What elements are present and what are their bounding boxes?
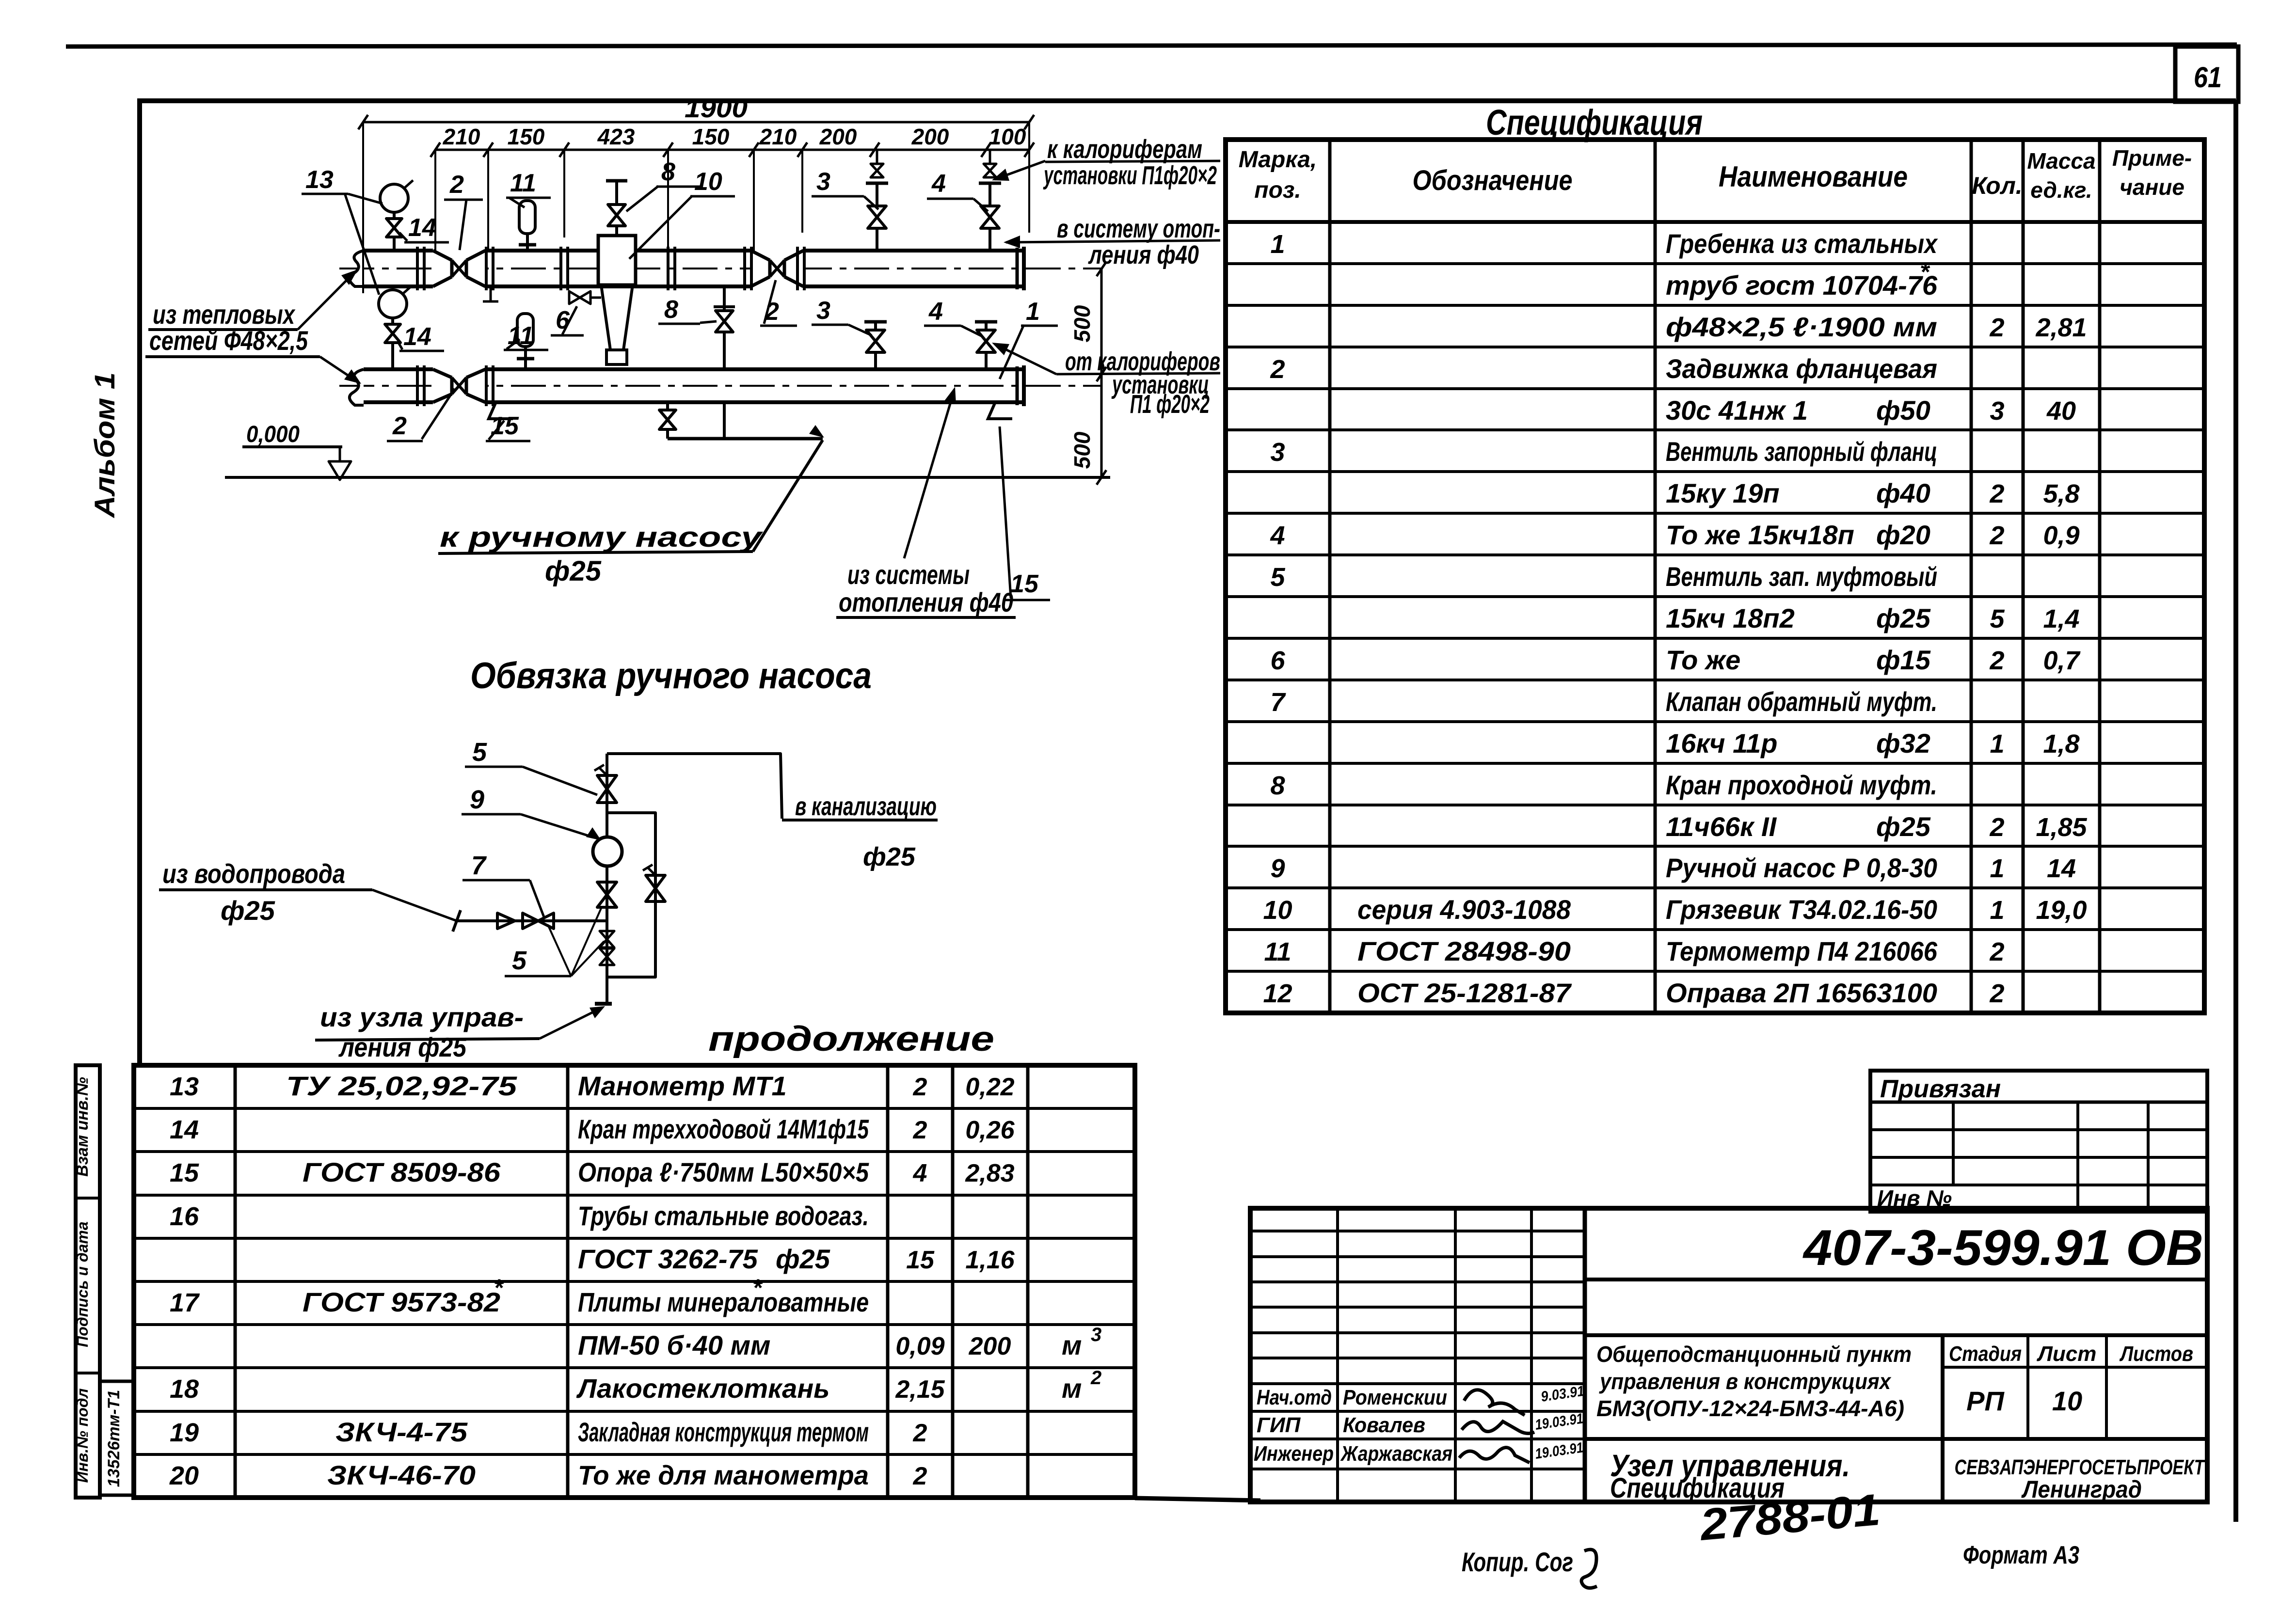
svg-text:15: 15 bbox=[1010, 570, 1039, 598]
svg-text:4: 4 bbox=[913, 1159, 927, 1187]
svg-text:к калориферам: к калориферам bbox=[1047, 135, 1202, 164]
svg-text:Гребенка из стальных: Гребенка из стальных bbox=[1666, 228, 1938, 259]
pump top line to sewer bbox=[607, 754, 782, 819]
svg-text:0,22: 0,22 bbox=[965, 1073, 1014, 1101]
thermometer 11 upper bbox=[519, 201, 535, 234]
dirt trap drain valve item 6 bbox=[569, 291, 580, 304]
svg-text:Подпись и дата: Подпись и дата bbox=[74, 1221, 91, 1347]
svg-text:40: 40 bbox=[2046, 396, 2076, 426]
dimension line segments bbox=[435, 149, 1029, 151]
svg-text:2,83: 2,83 bbox=[965, 1159, 1014, 1187]
svg-text:500: 500 bbox=[1069, 431, 1095, 469]
svg-text:5: 5 bbox=[512, 946, 527, 975]
right dimension 500 500 bbox=[1100, 269, 1103, 477]
svg-text:ЗКЧ-4-75: ЗКЧ-4-75 bbox=[335, 1417, 468, 1447]
continuation table grid bbox=[134, 1065, 1135, 1498]
stadia columns bbox=[1941, 1335, 1945, 1502]
svg-text:Закладная конструкция термом: Закладная конструкция термом bbox=[578, 1417, 869, 1447]
svg-text:2: 2 bbox=[1989, 979, 2004, 1008]
svg-text:10: 10 bbox=[2052, 1386, 2082, 1416]
drain valve under lower pipe bbox=[666, 402, 669, 410]
svg-text:200: 200 bbox=[819, 124, 857, 149]
svg-text:15: 15 bbox=[491, 412, 519, 440]
svg-text:БМЗ(ОПУ-12×24-БМЗ-44-А6): БМЗ(ОПУ-12×24-БМЗ-44-А6) bbox=[1596, 1396, 1904, 1421]
svg-text:поз.: поз. bbox=[1254, 177, 1301, 203]
svg-text:*: * bbox=[752, 1274, 763, 1301]
svg-text:5: 5 bbox=[1990, 604, 2005, 633]
svg-text:ГОСТ 28498-90: ГОСТ 28498-90 bbox=[1357, 936, 1571, 966]
svg-text:отопления ф40: отопления ф40 bbox=[839, 587, 1013, 617]
svg-text:500: 500 bbox=[1069, 305, 1095, 342]
svg-text:ф25: ф25 bbox=[221, 895, 275, 926]
svg-text:То же 15кч18п: То же 15кч18п bbox=[1666, 520, 1854, 550]
svg-text:труб гост 10704-76: труб гост 10704-76 bbox=[1666, 270, 1938, 300]
svg-text:ф40: ф40 bbox=[1876, 478, 1930, 508]
svg-text:0,9: 0,9 bbox=[2043, 521, 2079, 550]
svg-text:ОСТ 25-1281-87: ОСТ 25-1281-87 bbox=[1357, 978, 1572, 1008]
svg-text:2: 2 bbox=[913, 1419, 927, 1447]
svg-text:15кч 18п2: 15кч 18п2 bbox=[1666, 603, 1795, 633]
frame bottom segment bbox=[1135, 1498, 1260, 1500]
svg-text:Привязан: Привязан bbox=[1880, 1075, 2001, 1103]
svg-text:10: 10 bbox=[1263, 896, 1292, 925]
svg-text:1,85: 1,85 bbox=[2036, 813, 2087, 842]
svg-text:16кч 11р: 16кч 11р bbox=[1666, 728, 1777, 758]
svg-text:2: 2 bbox=[913, 1073, 927, 1101]
svg-text:7: 7 bbox=[1270, 688, 1286, 717]
svg-text:210: 210 bbox=[759, 124, 797, 149]
svg-text:11ч66к II: 11ч66к II bbox=[1666, 811, 1777, 842]
svg-text:0,26: 0,26 bbox=[965, 1116, 1015, 1144]
pipe right end caps bbox=[1016, 248, 1019, 289]
svg-text:2: 2 bbox=[1989, 646, 2004, 675]
riser valve 3 lower bbox=[874, 352, 877, 369]
svg-text:Лист: Лист bbox=[2037, 1342, 2097, 1366]
svg-text:Роменскии: Роменскии bbox=[1343, 1386, 1447, 1409]
title block right horizontals bbox=[1585, 1278, 2207, 1281]
svg-text:ления ф40: ления ф40 bbox=[1088, 240, 1199, 269]
svg-text:ГОСТ 3262-75: ГОСТ 3262-75 bbox=[578, 1244, 758, 1274]
svg-text:м: м bbox=[1062, 1373, 1082, 1404]
title block left grid rows bbox=[1250, 1230, 1585, 1232]
svg-text:Манометр МТ1: Манометр МТ1 bbox=[578, 1071, 787, 1101]
svg-text:Грязевик Т34.02.16-50: Грязевик Т34.02.16-50 bbox=[1666, 894, 1937, 925]
svg-text:в систему отоп-: в систему отоп- bbox=[1057, 214, 1220, 243]
svg-text:ГИП: ГИП bbox=[1257, 1413, 1301, 1437]
sheet number box 61 bbox=[2175, 47, 2238, 102]
svg-text:5: 5 bbox=[1270, 563, 1285, 592]
svg-text:1: 1 bbox=[1270, 230, 1285, 259]
svg-text:3: 3 bbox=[1270, 438, 1285, 467]
svg-text:9: 9 bbox=[1270, 854, 1285, 883]
sewer label в канализацию bbox=[782, 819, 938, 821]
svg-text:ф15: ф15 bbox=[1876, 645, 1931, 675]
svg-text:2: 2 bbox=[1989, 813, 2004, 842]
svg-text:Взам инв.№: Взам инв.№ bbox=[73, 1077, 92, 1177]
svg-text:1: 1 bbox=[1990, 854, 2004, 883]
svg-text:1,4: 1,4 bbox=[2043, 604, 2079, 633]
valve 5 top bbox=[597, 775, 617, 789]
svg-text:П1 ф20×2: П1 ф20×2 bbox=[1130, 390, 1210, 419]
svg-text:7: 7 bbox=[471, 851, 487, 880]
drawing frame right bbox=[2233, 101, 2238, 1522]
svg-text:12: 12 bbox=[1263, 979, 1292, 1008]
svg-text:13: 13 bbox=[170, 1072, 199, 1101]
svg-text:продолжение: продолжение bbox=[708, 1020, 994, 1058]
svg-text:2,81: 2,81 bbox=[2035, 313, 2087, 342]
svg-text:14: 14 bbox=[408, 214, 436, 242]
svg-text:ед.кг.: ед.кг. bbox=[2030, 177, 2092, 203]
svg-text:из системы: из системы bbox=[847, 559, 970, 590]
svg-text:100: 100 bbox=[989, 124, 1026, 149]
svg-text:2: 2 bbox=[1090, 1367, 1101, 1389]
svg-text:1: 1 bbox=[1990, 896, 2004, 925]
inlet check valve bbox=[497, 913, 515, 929]
svg-text:5: 5 bbox=[472, 738, 487, 767]
svg-text:Обвязка ручного насоса: Обвязка ручного насоса bbox=[470, 655, 872, 696]
svg-text:150: 150 bbox=[692, 124, 730, 149]
svg-text:ф25: ф25 bbox=[545, 555, 602, 587]
svg-text:Кран проходной муфт.: Кран проходной муфт. bbox=[1666, 770, 1937, 800]
svg-text:чание: чание bbox=[2120, 174, 2184, 200]
svg-text:Копир. Сог: Копир. Сог bbox=[1462, 1547, 1573, 1577]
dirt trap item 10 bbox=[598, 236, 636, 285]
svg-text:Марка,: Марка, bbox=[1239, 147, 1317, 173]
signature squiggles bbox=[1464, 1390, 1525, 1415]
svg-text:423: 423 bbox=[597, 124, 635, 149]
svg-text:16: 16 bbox=[170, 1202, 199, 1231]
inlet line from water supply bbox=[457, 919, 607, 922]
svg-text:Термометр П4 216066: Термометр П4 216066 bbox=[1666, 936, 1938, 966]
svg-text:*: * bbox=[494, 1274, 504, 1301]
svg-text:200: 200 bbox=[969, 1332, 1011, 1360]
svg-text:ф50: ф50 bbox=[1876, 395, 1930, 426]
svg-text:Спецификация: Спецификация bbox=[1486, 102, 1703, 142]
svg-text:РП: РП bbox=[1966, 1386, 2005, 1416]
svg-text:11: 11 bbox=[510, 169, 536, 197]
svg-text:2: 2 bbox=[1989, 937, 2004, 966]
title block vertical dividers bbox=[1336, 1208, 1339, 1502]
svg-text:То же для манометра: То же для манометра bbox=[578, 1460, 869, 1490]
svg-text:200: 200 bbox=[911, 124, 949, 149]
svg-text:Обозначение: Обозначение bbox=[1413, 165, 1573, 196]
supply leaders bbox=[298, 272, 354, 330]
svg-text:4: 4 bbox=[1270, 521, 1285, 550]
svg-text:1,16: 1,16 bbox=[965, 1246, 1015, 1274]
svg-text:6: 6 bbox=[1270, 646, 1285, 675]
svg-text:Опора ℓ·750мм L50×50×5: Опора ℓ·750мм L50×50×5 bbox=[578, 1157, 869, 1187]
stamp strip boxes bbox=[76, 1065, 100, 1498]
bypass valve 8 bbox=[723, 286, 726, 311]
drawing frame left bbox=[137, 98, 142, 1066]
svg-text:ф25: ф25 bbox=[1876, 811, 1931, 842]
svg-text:2,15: 2,15 bbox=[895, 1375, 945, 1404]
pressure gauge 13 upper with cock 14 bbox=[380, 184, 408, 212]
svg-text:2: 2 bbox=[1989, 521, 2004, 550]
svg-text:ПМ-50 б·40 мм: ПМ-50 б·40 мм bbox=[578, 1330, 770, 1360]
svg-text:Вентиль запорный фланц: Вентиль запорный фланц bbox=[1666, 436, 1937, 467]
svg-text:Масса: Масса bbox=[2027, 148, 2095, 174]
title block outer bbox=[1250, 1208, 2207, 1502]
bypass valve bbox=[646, 875, 665, 888]
spec table grid bbox=[1226, 140, 2204, 1013]
svg-text:15: 15 bbox=[170, 1158, 199, 1187]
svg-text:ф25: ф25 bbox=[776, 1244, 830, 1274]
svg-text:19,0: 19,0 bbox=[2036, 896, 2087, 925]
svg-text:Стадия: Стадия bbox=[1949, 1342, 2022, 1366]
small valves lower bbox=[600, 931, 614, 939]
svg-text:Наименование: Наименование bbox=[1719, 160, 1908, 193]
svg-text:Вентиль зап. муфтовый: Вентиль зап. муфтовый bbox=[1666, 561, 1937, 592]
svg-text:8: 8 bbox=[1270, 771, 1285, 800]
drawing frame top bbox=[140, 98, 2236, 103]
pipe lower manifold outline bbox=[364, 367, 1024, 371]
svg-text:Жаржавская: Жаржавская bbox=[1340, 1442, 1452, 1466]
svg-text:Общеподстанционный пункт: Общеподстанционный пункт bbox=[1596, 1342, 1912, 1367]
gate valve 2 upper-left bbox=[433, 249, 485, 288]
svg-text:из узла управ-: из узла управ- bbox=[320, 1002, 524, 1032]
riser valve 4 lower bbox=[985, 352, 988, 369]
svg-text:м: м bbox=[1062, 1330, 1082, 1360]
svg-text:ф25: ф25 bbox=[1876, 603, 1931, 633]
svg-text:Трубы стальные водогаз.: Трубы стальные водогаз. bbox=[578, 1200, 869, 1231]
svg-text:0,000: 0,000 bbox=[246, 422, 300, 447]
svg-text:4: 4 bbox=[928, 298, 943, 326]
svg-text:13: 13 bbox=[305, 166, 334, 194]
svg-text:1,8: 1,8 bbox=[2043, 729, 2079, 758]
privyazan box bbox=[1870, 1071, 2207, 1212]
bypass branch bbox=[607, 813, 655, 977]
svg-text:2: 2 bbox=[449, 171, 464, 199]
svg-text:19: 19 bbox=[170, 1418, 199, 1447]
svg-text:ТУ 25,02,92-75: ТУ 25,02,92-75 bbox=[286, 1071, 517, 1101]
svg-text:61: 61 bbox=[2194, 61, 2222, 94]
pipe upper centerline bbox=[339, 268, 1101, 269]
svg-text:0,09: 0,09 bbox=[895, 1332, 944, 1360]
svg-text:6: 6 bbox=[556, 306, 570, 334]
svg-text:Ленинград: Ленинград bbox=[2021, 1476, 2142, 1503]
pipe upper manifold outline bbox=[364, 249, 1024, 253]
svg-text:Листов: Листов bbox=[2119, 1342, 2193, 1366]
flange pairs bbox=[416, 247, 419, 290]
svg-text:10: 10 bbox=[694, 168, 722, 196]
pipe lower centerline bbox=[339, 385, 1101, 387]
svg-text:14: 14 bbox=[2047, 854, 2076, 883]
svg-text:30с 41нж 1: 30с 41нж 1 bbox=[1666, 395, 1808, 426]
inlet valve bbox=[523, 913, 538, 929]
svg-text:3: 3 bbox=[816, 168, 830, 196]
svg-text:407-3-599.91 ОВ: 407-3-599.91 ОВ bbox=[1802, 1220, 2203, 1276]
svg-text:Приме-: Приме- bbox=[2112, 145, 2192, 171]
bottom junction bbox=[595, 1002, 612, 1006]
drain stub upper bbox=[490, 286, 492, 301]
svg-text:0,7: 0,7 bbox=[2043, 646, 2081, 675]
support 15 left bbox=[489, 403, 513, 419]
svg-text:Кран трехходовой 14М1ф15: Кран трехходовой 14М1ф15 bbox=[578, 1114, 869, 1144]
svg-text:17: 17 bbox=[170, 1288, 200, 1317]
svg-text:к ручному насосу: к ручному насосу bbox=[440, 521, 764, 553]
svg-text:210: 210 bbox=[443, 124, 480, 149]
sheet top border line bbox=[66, 45, 2237, 47]
svg-text:Лакостеклоткань: Лакостеклоткань bbox=[576, 1373, 829, 1404]
dirt trap stem and valve item 8 bbox=[615, 226, 618, 236]
svg-text:150: 150 bbox=[508, 124, 545, 149]
svg-text:20: 20 bbox=[169, 1461, 199, 1490]
svg-text:ф25: ф25 bbox=[863, 842, 916, 871]
drain manifold to pump bbox=[668, 437, 823, 441]
svg-text:1: 1 bbox=[1990, 729, 2004, 758]
svg-text:2: 2 bbox=[1989, 313, 2004, 342]
svg-text:Задвижка фланцевая: Задвижка фланцевая bbox=[1666, 353, 1937, 384]
svg-text:Ковалев: Ковалев bbox=[1343, 1413, 1425, 1437]
valve below pump bbox=[597, 882, 617, 895]
thermometer 11 lower bbox=[517, 314, 533, 347]
drain line from bypass bbox=[723, 402, 726, 439]
svg-text:управления в конструкциях: управления в конструкциях bbox=[1599, 1369, 1892, 1394]
pressure gauge 13 lower with cock 14 bbox=[379, 290, 407, 318]
riser valve 4 upper bbox=[989, 228, 991, 251]
svg-text:15: 15 bbox=[906, 1246, 935, 1274]
svg-text:ГОСТ 8509-86: ГОСТ 8509-86 bbox=[303, 1157, 501, 1187]
svg-text:установки П1ф20×2: установки П1ф20×2 bbox=[1043, 161, 1217, 190]
svg-text:ф32: ф32 bbox=[1876, 728, 1930, 758]
svg-text:11: 11 bbox=[1264, 937, 1291, 966]
svg-text:14: 14 bbox=[403, 323, 431, 351]
hand pump 9 bbox=[593, 837, 622, 866]
svg-text:Ручной насос Р 0,8-30: Ручной насос Р 0,8-30 bbox=[1666, 853, 1937, 883]
svg-text:Оправа 2П 16563100: Оправа 2П 16563100 bbox=[1666, 978, 1937, 1008]
pump main vertical pipe bbox=[606, 754, 608, 837]
svg-text:из водопровода: из водопровода bbox=[162, 858, 345, 889]
gate valve 2 upper-right bbox=[751, 249, 803, 288]
svg-text:Инв.№ подл: Инв.№ подл bbox=[74, 1388, 91, 1483]
svg-text:3: 3 bbox=[816, 297, 830, 325]
svg-text:18: 18 bbox=[170, 1374, 199, 1404]
svg-text:9: 9 bbox=[470, 785, 484, 814]
svg-text:4: 4 bbox=[931, 170, 946, 198]
svg-text:Кол.: Кол. bbox=[1972, 172, 2022, 199]
svg-text:3: 3 bbox=[1990, 396, 2004, 426]
svg-text:2: 2 bbox=[1270, 355, 1285, 384]
dimension line 1900 bbox=[363, 121, 1029, 124]
ground line bbox=[225, 476, 1110, 479]
svg-text:То же: То же bbox=[1666, 645, 1740, 675]
svg-text:ф20: ф20 bbox=[1876, 520, 1930, 550]
svg-text:2: 2 bbox=[1989, 479, 2004, 508]
svg-text:*: * bbox=[1920, 258, 1930, 285]
svg-text:Альбом 1: Альбом 1 bbox=[89, 372, 121, 519]
svg-text:8: 8 bbox=[661, 158, 675, 186]
svg-text:13526тм-Т1: 13526тм-Т1 bbox=[105, 1390, 123, 1487]
svg-text:15ку 19п: 15ку 19п bbox=[1666, 478, 1780, 508]
svg-text:ления ф25: ления ф25 bbox=[338, 1032, 466, 1062]
svg-text:1: 1 bbox=[1026, 298, 1040, 326]
svg-text:серия 4.903-1088: серия 4.903-1088 bbox=[1357, 894, 1571, 925]
svg-text:ЗКЧ-46-70: ЗКЧ-46-70 bbox=[327, 1460, 476, 1490]
svg-text:8: 8 bbox=[664, 296, 678, 324]
svg-text:14: 14 bbox=[170, 1115, 199, 1144]
svg-text:3: 3 bbox=[1091, 1324, 1101, 1345]
svg-text:Плиты минераловатные: Плиты минераловатные bbox=[578, 1287, 869, 1317]
svg-text:Клапан обратный муфт.: Клапан обратный муфт. bbox=[1666, 686, 1937, 717]
riser valve 3 upper bbox=[876, 228, 878, 251]
svg-text:2: 2 bbox=[392, 412, 407, 440]
gate valve 2 lower bbox=[433, 367, 485, 404]
svg-text:в канализацию: в канализацию bbox=[795, 792, 937, 821]
svg-text:сетей Ф48×2,5: сетей Ф48×2,5 bbox=[149, 325, 308, 356]
svg-text:ф48×2,5 ℓ·1900 мм: ф48×2,5 ℓ·1900 мм bbox=[1666, 312, 1937, 342]
svg-text:Формат А3: Формат А3 bbox=[1963, 1541, 2079, 1569]
svg-text:ГОСТ 9573-82: ГОСТ 9573-82 bbox=[303, 1287, 500, 1317]
svg-text:2: 2 bbox=[913, 1462, 927, 1490]
support 15 right bbox=[988, 403, 1012, 419]
svg-text:Нач.отд: Нач.отд bbox=[1257, 1386, 1332, 1409]
svg-text:2: 2 bbox=[913, 1116, 927, 1144]
pipe left break ends bbox=[350, 251, 364, 286]
svg-text:5,8: 5,8 bbox=[2043, 479, 2079, 508]
svg-text:1900: 1900 bbox=[685, 94, 748, 123]
svg-text:Инженер: Инженер bbox=[1254, 1442, 1334, 1466]
